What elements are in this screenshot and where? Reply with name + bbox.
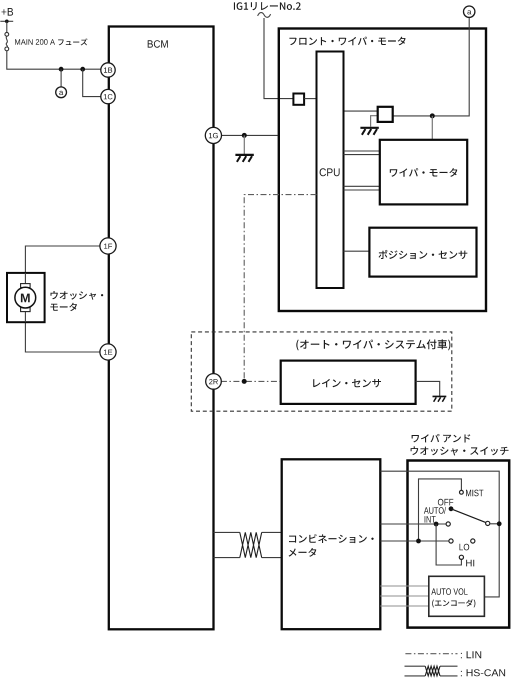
combination meter box (282, 459, 381, 629)
label LO (460, 544, 470, 551)
label position sensor (379, 250, 468, 259)
wire pair CPU to wiper motor (lower) (344, 186, 380, 190)
node (a) left (56, 87, 67, 98)
connector 1B (101, 63, 115, 77)
wire down to circled a (60, 69, 62, 87)
label rain sensor (313, 379, 381, 388)
wire to 1C (83, 69, 101, 96)
connector 1C (101, 89, 115, 103)
wire inside washer box top (24, 273, 26, 284)
junction +B dot (5, 20, 9, 24)
wire 1F to washer motor (25, 246, 100, 273)
contact LO left (449, 539, 453, 543)
ground G3 (433, 396, 447, 401)
wire inside washer box bottom (24, 312, 26, 323)
label combination meter line1 (289, 534, 374, 543)
wire stub to ground (243, 135, 245, 154)
rain sensor box (281, 361, 416, 404)
wiper motor box (380, 140, 467, 205)
junction dot AUTO/INT row (434, 522, 439, 527)
connector 1G (205, 127, 221, 143)
wire 1G to front wiper motor box (221, 134, 278, 136)
junction dot to 1C (80, 67, 85, 72)
wire LIN dash-dot rain sensor to CPU (244, 195, 316, 382)
front wiper motor box (279, 29, 486, 312)
label INT (425, 516, 436, 523)
legend HS-CAN text (461, 669, 505, 676)
position sensor box (369, 228, 476, 277)
wires combi to AUTO VOL (380, 586, 429, 606)
junction dot above wiper motor (430, 113, 435, 118)
terminal square T2 (378, 107, 393, 122)
junction dot to (a) (59, 67, 64, 72)
wire HS-CAN top pair (214, 531, 282, 533)
node +B battery feed (2, 8, 14, 16)
dashed option box (auto wiper system) (191, 332, 452, 411)
label OFF (438, 499, 453, 506)
connector 1E (100, 344, 116, 360)
ground G2 (360, 128, 378, 135)
motor M1 washer (M symbol) (21, 284, 31, 288)
wire combi to switch top feed (380, 471, 499, 597)
label CPU (320, 168, 340, 176)
legend LIN text (461, 651, 481, 658)
contact HI (459, 555, 463, 559)
HS-CAN braid (240, 532, 262, 557)
label MIST (466, 490, 483, 497)
terminal square T1 (293, 94, 304, 105)
relay squiggle (258, 13, 271, 18)
wire AUTO/INT row (380, 523, 446, 525)
contact AUTO/INT (446, 522, 450, 526)
wire pair CPU to wiper motor (upper) (344, 151, 380, 155)
wire fuse to 1B (7, 51, 101, 69)
junction LIN dot (242, 379, 247, 384)
connector 2R (206, 374, 222, 390)
legend HS-CAN symbol (405, 666, 458, 676)
wire (a) down to junction (393, 17, 470, 116)
BCM box (109, 27, 214, 630)
AUTO VOL encoder box (429, 576, 485, 616)
junction 1G ground dot (242, 133, 247, 138)
junction dot right feed (497, 521, 502, 526)
label wiper and washer switch line2 (411, 446, 509, 455)
switch lever (449, 506, 454, 511)
label washer motor line2 (50, 303, 77, 311)
wire LO row (380, 540, 449, 542)
label AUTO/ (424, 507, 446, 514)
label auto wiper system option (296, 339, 450, 350)
label encoder (432, 599, 475, 607)
label wiper motor (390, 168, 458, 177)
label HI (466, 560, 474, 567)
label front wiper motor (289, 37, 405, 46)
wire IG1 down and into front box (264, 18, 293, 99)
label wiper and washer switch line1 (412, 434, 471, 443)
wire rain sensor to ground (416, 381, 440, 396)
label washer motor line1 (51, 291, 104, 300)
wire MIST branch (419, 479, 462, 541)
wire CPU to position sensor (344, 250, 370, 252)
junction dot LO row (416, 539, 421, 544)
label IG1 relay No.2 (234, 2, 301, 10)
wire HS-CAN bottom pair (214, 557, 282, 559)
label MAIN 200 A fuse (15, 39, 55, 45)
node (a) right (464, 6, 475, 17)
wire +B terminal tick (0, 20, 13, 22)
label combination meter line2 (289, 548, 317, 557)
contact MIST (460, 490, 464, 494)
wire washer motor to 1E (25, 322, 100, 352)
contact LO right (471, 539, 475, 543)
label BCM (148, 40, 168, 48)
wire T2 ground link (371, 116, 378, 127)
wire junction down to wiper motor (431, 116, 433, 140)
fuse MAIN 200 A (symbol) (5, 32, 9, 36)
legend LIN line (405, 653, 457, 655)
CPU box (317, 52, 344, 289)
wire +B down to fuse (6, 21, 8, 32)
wire CPU to terminal square T2 (344, 110, 378, 112)
label AUTO VOL (431, 588, 467, 595)
wire HI branch (436, 524, 461, 565)
switch outer box (408, 461, 510, 628)
washer motor box (7, 273, 45, 322)
ground G1 (235, 155, 253, 162)
connector 1F (100, 238, 116, 254)
wire T1 to CPU (304, 98, 316, 100)
wire LIN 2R to rain sensor (221, 380, 281, 382)
